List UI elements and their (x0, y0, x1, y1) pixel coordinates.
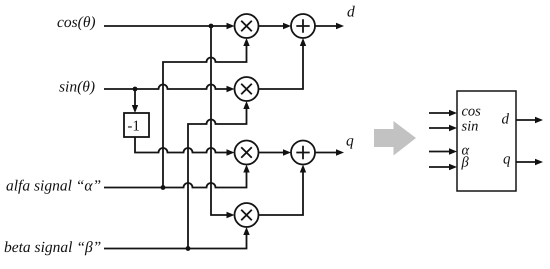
svg-text:β: β (461, 155, 470, 171)
wire alfa rise to M1 bottom (163, 46, 247, 188)
block dq box (457, 91, 516, 191)
svg-text:q: q (503, 152, 511, 168)
wire block input cos (429, 112, 449, 114)
svg-text:sin: sin (462, 119, 479, 135)
adder A2 (291, 141, 315, 165)
wire gain output to M3 with hops (135, 137, 227, 153)
wire q output (315, 152, 336, 154)
wire M3 output to A2 (259, 152, 284, 154)
gain block -1 (124, 113, 149, 137)
wire cos drop to M4 left input (211, 26, 227, 215)
wire block output d (516, 119, 535, 121)
multiplier M1 (235, 14, 259, 38)
svg-text:q: q (346, 133, 354, 150)
node sin branch junction (133, 87, 138, 92)
wire beta rise to M2 bottom (188, 109, 247, 249)
wire sin input to M2 with hops (104, 85, 227, 90)
multiplier M2 (235, 77, 259, 101)
wire block output q (516, 161, 535, 163)
wire block input sin (429, 127, 449, 129)
wire cos input to M1 (104, 25, 227, 27)
node cos branch junction (209, 24, 214, 29)
svg-text:sin(θ): sin(θ) (59, 79, 95, 96)
node alfa branch junction (161, 185, 166, 190)
svg-text:alfa signal “α”: alfa signal “α” (6, 178, 101, 195)
svg-text:d: d (502, 112, 510, 128)
svg-text:d: d (347, 4, 355, 21)
wire alfa input to M3 bottom with hops (104, 173, 247, 188)
multiplier M4 (235, 203, 259, 227)
wire beta input to M4 bottom (104, 235, 247, 249)
wire M2 output to A1 bottom (259, 46, 304, 89)
wire block input alpha (429, 151, 449, 153)
node beta branch junction (186, 246, 191, 251)
multiplier M3 (235, 141, 259, 165)
svg-text:beta signal “β”: beta signal “β” (4, 239, 101, 256)
wire block input beta (429, 166, 449, 168)
svg-text:-1: -1 (127, 119, 139, 135)
adder A1 (291, 14, 315, 38)
wire sin down to gain box (134, 89, 136, 105)
wire M1 output to A1 (259, 25, 284, 27)
wire d output (315, 25, 336, 27)
svg-text:cos: cos (462, 104, 482, 120)
svg-text:cos(θ): cos(θ) (57, 14, 96, 31)
big gray arrow (374, 121, 416, 156)
wire M4 output to A2 bottom (259, 173, 304, 216)
